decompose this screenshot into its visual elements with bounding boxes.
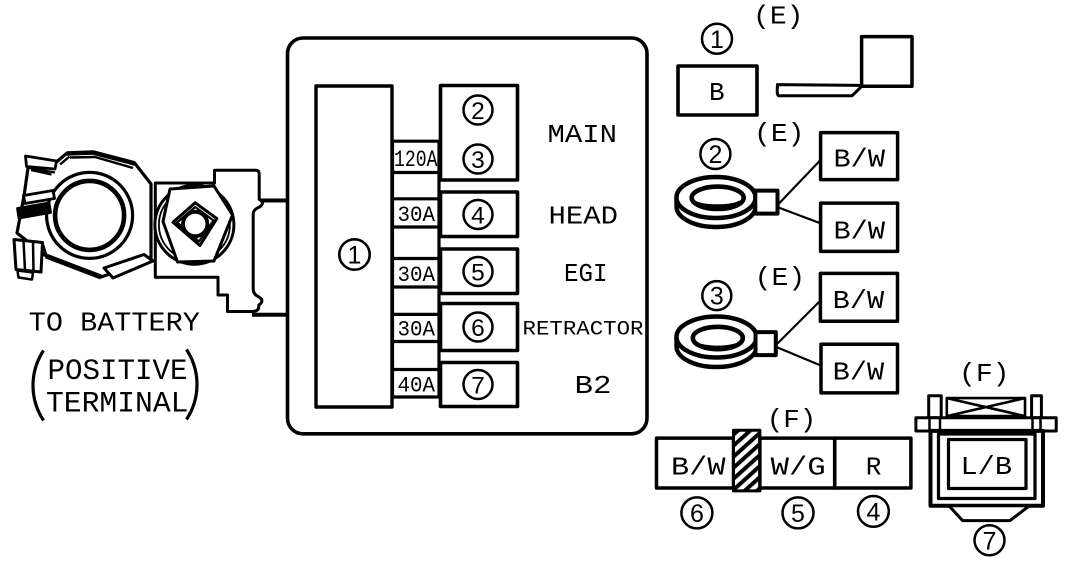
wire color box R: [835, 438, 911, 488]
fan wire 3a: [778, 301, 821, 344]
wire color box W/G: [760, 438, 835, 488]
wire color box B: [678, 66, 757, 115]
clamp body bottom thick edge: [46, 256, 101, 277]
bolt square: [173, 203, 217, 246]
crimp link line: [43, 243, 47, 256]
nut hexagon: [163, 186, 233, 262]
svg-text:5: 5: [471, 259, 485, 286]
svg-text:(E): (E): [753, 2, 804, 32]
svg-text:7: 7: [471, 372, 485, 399]
svg-text:TERMINAL: TERMINAL: [46, 388, 189, 422]
fan wire 2a: [779, 160, 822, 205]
connector cavity box: [949, 440, 1027, 489]
connector top left tab: [929, 396, 942, 418]
svg-text:6: 6: [690, 500, 704, 528]
bolt center circle: [183, 212, 207, 236]
svg-text:B/W: B/W: [834, 144, 886, 174]
svg-text:(E): (E): [754, 119, 805, 149]
mid left bar: [24, 191, 55, 204]
circled 2: [700, 139, 730, 169]
svg-text:B/W: B/W: [833, 358, 885, 388]
svg-text:B/W: B/W: [834, 216, 886, 246]
svg-text:(F): (F): [959, 359, 1010, 389]
crimp block tip: [18, 271, 34, 280]
upper left tab: [26, 156, 57, 169]
circled 1: [702, 24, 732, 54]
fusible link box outline: [288, 38, 648, 434]
wire color box B/W 3a: [820, 273, 897, 321]
svg-text:2: 2: [708, 141, 722, 169]
nut boss circle: [155, 185, 234, 264]
fuse B2 box: [441, 363, 518, 407]
svg-text:5: 5: [791, 500, 805, 528]
fan wire 3b: [778, 348, 823, 367]
fuse MAIN box: [441, 86, 518, 181]
fuse RETRACTOR box: [441, 304, 518, 351]
circled 5: [464, 257, 493, 286]
circled 7: [464, 370, 493, 399]
connector tab stems: [930, 418, 1041, 431]
nut boss inner circle: [159, 189, 230, 260]
eyelet ring 2 hole depth: [694, 202, 741, 207]
svg-text:W/G: W/G: [771, 453, 826, 483]
clamp foot: [104, 255, 153, 279]
circled 1: [339, 239, 369, 269]
connector crossed lock: [947, 398, 1025, 416]
fuse EGI box: [441, 249, 518, 294]
fuse HEAD box: [441, 192, 518, 237]
eyelet 3 tab: [756, 332, 776, 355]
svg-text:B: B: [709, 78, 725, 108]
wire color box B/W 2a: [821, 133, 898, 180]
connector body: [931, 431, 1044, 506]
clamp body: [17, 153, 151, 278]
clamp inner ring: [55, 181, 124, 250]
big right paren: [187, 350, 198, 420]
svg-text:B2: B2: [575, 371, 612, 401]
svg-text:40A: 40A: [398, 372, 436, 398]
svg-text:1: 1: [710, 26, 724, 54]
svg-text:3: 3: [710, 283, 724, 311]
mid left solid bar: [18, 203, 51, 218]
circled 7: [975, 525, 1005, 555]
svg-text:30A: 30A: [398, 317, 436, 343]
eyelet 2 tab: [755, 191, 777, 214]
svg-text:6: 6: [471, 315, 485, 342]
svg-text:4: 4: [471, 202, 485, 229]
wire color box B/W 6: [657, 438, 734, 488]
circled 4: [464, 200, 493, 229]
eyelet ring 2 hole: [692, 187, 744, 209]
circled 3: [702, 281, 731, 310]
svg-text:30A: 30A: [398, 202, 436, 228]
bolt square inner: [177, 207, 214, 242]
terminal bracket plate: [155, 170, 262, 311]
svg-text:1: 1: [348, 242, 362, 270]
amp-rating ladder: [393, 141, 440, 397]
svg-text:30A: 30A: [398, 262, 436, 288]
connector flange: [916, 418, 1056, 431]
wire color box B/W 3b: [821, 344, 898, 393]
hatched splice box: [734, 430, 760, 491]
clamp body top thick edge: [67, 153, 136, 164]
circled 3: [464, 145, 493, 174]
circled 6: [681, 497, 712, 528]
svg-text:(F): (F): [767, 405, 817, 435]
clamp body lip lines: [60, 157, 133, 169]
fusible link 1 body: [316, 86, 392, 407]
circled 4: [858, 496, 889, 527]
svg-text:(E): (E): [755, 263, 806, 293]
svg-text:2: 2: [471, 98, 485, 125]
circled 2: [464, 96, 493, 125]
svg-text:3: 3: [471, 147, 485, 174]
eyelet ring 3 rim: [677, 337, 757, 367]
crimp block ridges: [24, 241, 34, 272]
svg-text:120A: 120A: [394, 147, 438, 174]
eyelet ring 3 hole: [693, 327, 743, 349]
svg-text:4: 4: [866, 499, 880, 527]
upper left tab under lines: [27, 168, 55, 175]
circled 6: [464, 313, 493, 342]
svg-text:EGI: EGI: [564, 259, 608, 289]
svg-text:R: R: [866, 453, 882, 483]
eyelet ring 3: [677, 317, 757, 358]
connector inner wall: [939, 434, 1036, 499]
svg-text:7: 7: [983, 527, 997, 555]
fan wire 2b: [779, 208, 822, 224]
svg-text:B/W: B/W: [671, 453, 726, 483]
wire stub upper (bracket to box): [257, 199, 289, 203]
connector top right tab: [1032, 396, 1042, 418]
svg-text:L/B: L/B: [961, 452, 1013, 482]
svg-text:POSITIVE: POSITIVE: [48, 355, 188, 389]
circled 5: [783, 497, 814, 528]
eyelet ring 3 hole depth: [695, 342, 740, 348]
eyelet ring 2: [677, 177, 756, 218]
svg-text:HEAD: HEAD: [549, 201, 619, 231]
eyelet ring 2 rim: [677, 198, 756, 228]
big left paren: [33, 351, 44, 421]
svg-text:RETRACTOR: RETRACTOR: [523, 319, 644, 342]
terminal lug square: [862, 37, 912, 87]
svg-text:B/W: B/W: [833, 286, 885, 316]
connector bottom key: [949, 506, 1030, 521]
terminal lug blade: [777, 85, 862, 96]
crimp block: [14, 240, 43, 273]
wire stub lower (bracket to box): [252, 313, 289, 317]
svg-text:TO BATTERY: TO BATTERY: [29, 309, 200, 339]
wire color box B/W 2b: [821, 203, 898, 251]
svg-text:MAIN: MAIN: [548, 120, 618, 150]
clamp outer ring: [47, 172, 133, 258]
